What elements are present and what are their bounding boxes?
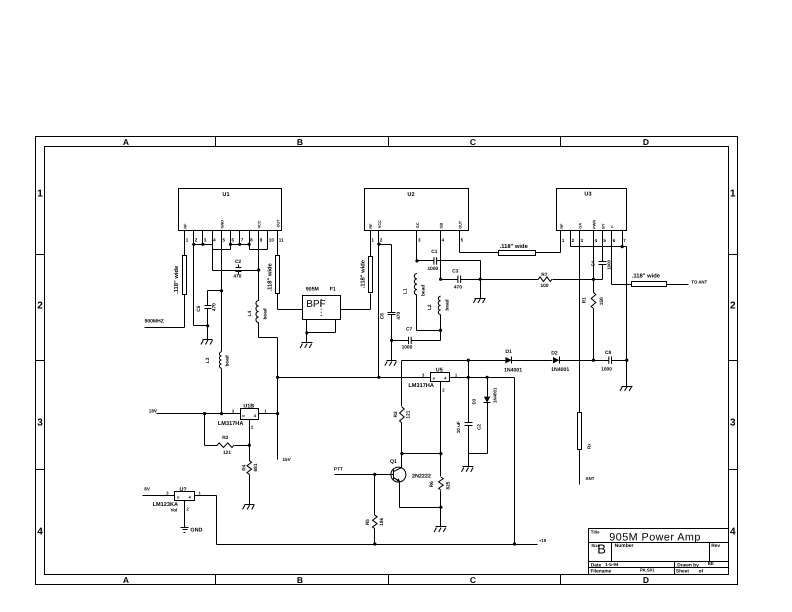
svg-text:3: 3: [580, 238, 583, 243]
junction dot C1/C3/ground node: [479, 278, 482, 281]
node 15V label: [283, 457, 292, 462]
wire regulator rail to U5: [278, 377, 431, 379]
wire L1 bottom jog: [417, 295, 441, 331]
junction dot R2/collector: [400, 452, 403, 455]
transistor Q1 2N2222: [390, 454, 431, 508]
capacitor C6 470 bypass: [379, 311, 402, 340]
junction dot 15V rail / U5 rail: [276, 376, 279, 379]
svg-text:BE: BE: [708, 561, 714, 566]
svg-text:F1: F1: [330, 286, 336, 292]
svg-text:RF: RF: [560, 223, 564, 229]
svg-text:ANT: ANT: [586, 476, 595, 481]
svg-text:2N2222: 2N2222: [412, 474, 431, 480]
regulator U5 LM317HA: [408, 368, 458, 393]
node 18V label: [149, 408, 158, 413]
svg-text:C2: C2: [235, 259, 241, 265]
svg-text:GA: GA: [578, 223, 582, 229]
svg-text:7: 7: [241, 238, 244, 243]
resistor R1 150: [581, 280, 605, 361]
inductor L1 bead: [403, 274, 427, 297]
ground under BPF: [300, 333, 312, 349]
junction dot BPF ground: [305, 331, 308, 334]
junction dot R3/R4/U1B adj: [248, 444, 251, 447]
wire U1 pin1 to microstrip: [184, 245, 186, 256]
wire stub to ANT: [579, 450, 581, 485]
svg-text:PA.S01: PA.S01: [640, 568, 655, 573]
capacitor C2 10uF: [456, 378, 482, 454]
svg-text:R1: R1: [581, 297, 587, 303]
svg-text:5: 5: [603, 238, 606, 243]
resistor R3 121: [217, 435, 249, 456]
wire U1 pin4 drop to C2: [212, 250, 214, 271]
junction dot U5 out / D1 branch: [467, 376, 470, 379]
wire U1B output to 15V column: [259, 413, 278, 415]
svg-text:2: 2: [572, 238, 575, 243]
regulator U? LM123KA: [153, 487, 202, 513]
filter F1 905M BPF body: [303, 286, 341, 319]
microstrip .118 wide (U1 input): [173, 256, 187, 295]
node PTT label: [334, 467, 343, 472]
IC U2 body: [365, 189, 469, 231]
svg-text:R4: R4: [241, 464, 247, 470]
junction dot R7/R1/C4 node: [592, 278, 595, 281]
junction dot U2 pin2 rail: [377, 376, 380, 379]
svg-text:.118" wide: .118" wide: [360, 259, 367, 288]
node 900MHZ input label: [145, 318, 164, 324]
junction dot U2 pin4 / C3: [439, 231, 442, 281]
junction dot D2 / R1 node: [592, 359, 595, 362]
svg-text:GB: GB: [440, 222, 444, 228]
svg-text:1: 1: [186, 238, 189, 243]
diode D1 1N4001: [504, 349, 553, 373]
junction dot C5 bottom: [206, 324, 209, 327]
capacitor C7 1000: [392, 327, 441, 351]
svg-text:11: 11: [279, 238, 284, 243]
wire U3 pin6 to output microstrip: [612, 247, 632, 285]
svg-text:L1: L1: [403, 288, 409, 294]
IC U1 body: [179, 189, 282, 231]
wire U3 ground bus pins 2-7: [571, 247, 627, 361]
svg-text:470: 470: [211, 303, 217, 311]
svg-text:2: 2: [37, 301, 43, 312]
junction dot pin5/C5: [220, 289, 223, 292]
svg-text:U3: U3: [584, 192, 591, 198]
capacitor C4 1000 bypass: [591, 247, 612, 280]
svg-text:D: D: [643, 137, 649, 147]
svg-text:10: 10: [269, 238, 275, 243]
svg-text:5: 5: [223, 238, 226, 243]
U2 pin numbers 1-5: [371, 238, 463, 243]
svg-text:R2: R2: [393, 411, 399, 417]
svg-text:OUT: OUT: [459, 220, 463, 229]
svg-text:C2: C2: [477, 424, 482, 430]
svg-text:470: 470: [454, 285, 462, 291]
junction dot U2 pin3 / C1: [415, 231, 418, 263]
svg-text:3: 3: [418, 238, 421, 243]
wire C3 node to R7: [481, 279, 539, 281]
U2 pin names: [369, 220, 462, 229]
svg-text:1N4001: 1N4001: [551, 367, 569, 373]
ground under C3 node: [473, 280, 485, 304]
wire U2 pin5 to interstage microstrip: [460, 231, 499, 253]
svg-text:2: 2: [195, 238, 198, 243]
svg-text:3: 3: [730, 418, 736, 429]
wire U3 pin4 column: [593, 247, 595, 280]
svg-text:681: 681: [253, 463, 259, 471]
junction dot C8 / U3 ground bus: [625, 359, 628, 362]
svg-text:1: 1: [371, 238, 374, 243]
svg-text:GND: GND: [220, 220, 224, 229]
junction dot U5 out / D3 branch: [486, 376, 489, 379]
svg-text:C6: C6: [379, 313, 385, 319]
svg-text:470: 470: [233, 273, 241, 279]
svg-text:Filename: Filename: [591, 568, 612, 574]
svg-text:.118" wide: .118" wide: [500, 243, 529, 250]
svg-text:D2: D2: [551, 350, 558, 356]
wire BPF ground stubs: [307, 320, 336, 333]
svg-text:A: A: [123, 575, 129, 585]
svg-text:2: 2: [380, 238, 383, 243]
resistor R5 18k: [365, 475, 385, 545]
capacitor C1 1000: [417, 249, 481, 272]
wire U1 ground bus pins 2-4: [194, 245, 231, 250]
svg-text:1: 1: [37, 189, 43, 200]
svg-text:+15: +15: [539, 538, 547, 543]
svg-text:1: 1: [730, 189, 736, 200]
svg-text:4: 4: [37, 527, 43, 538]
svg-text:.118" wide: .118" wide: [632, 273, 661, 280]
U3 pin numbers 1-7: [562, 238, 626, 243]
resistor R7 100: [538, 272, 593, 289]
svg-text:U2: U2: [407, 192, 414, 198]
node TO ANT label: [691, 280, 707, 285]
title block: [589, 529, 729, 575]
svg-text:4: 4: [213, 238, 216, 243]
wire microstrip to U3 pin1: [536, 231, 561, 253]
ground under Q1/R6: [434, 508, 446, 533]
svg-text:6: 6: [232, 238, 235, 243]
svg-text:bead: bead: [262, 308, 268, 319]
wire L4 to 15V column: [259, 323, 278, 460]
microstrip Rx stub: [578, 413, 592, 450]
svg-text:OUT: OUT: [277, 219, 281, 228]
svg-text:GC: GC: [416, 222, 420, 228]
svg-text:R7: R7: [541, 272, 547, 278]
junction dot C2 right / pin9: [257, 268, 260, 271]
U1 pin stubs: [185, 231, 278, 245]
U2 pin stubs: [371, 231, 460, 245]
wire LM123 output to +15 rail: [195, 496, 538, 545]
svg-text:D: D: [643, 575, 649, 585]
svg-text:C: C: [470, 137, 476, 147]
svg-text:905M: 905M: [306, 286, 319, 292]
junction dot U2 pin2: [377, 243, 380, 246]
junction dots U1 bus pins 6,7,8: [229, 243, 251, 246]
junction dot emitter/R6 ground node: [439, 506, 442, 509]
microstrip .118 wide (antenna output): [632, 273, 667, 287]
svg-text:1-5-94: 1-5-94: [605, 562, 619, 567]
svg-text:R6: R6: [429, 481, 435, 487]
svg-text:825: 825: [446, 481, 452, 489]
svg-text:BPF: BPF: [306, 299, 325, 310]
svg-text:7: 7: [623, 238, 626, 243]
wire PTT base line: [335, 474, 394, 476]
svg-text:905M Power Amp: 905M Power Amp: [609, 532, 701, 544]
svg-text:bead: bead: [420, 285, 426, 296]
earth ground GND under LM123: [181, 528, 203, 534]
svg-text:GND: GND: [190, 528, 202, 534]
wire L3 to U1B input rail: [221, 369, 223, 414]
wire R2 top / D1 line: [402, 360, 506, 362]
ground under C2/D3: [462, 454, 474, 472]
svg-text:U1: U1: [222, 192, 229, 198]
svg-text:9: 9: [260, 238, 263, 243]
wire pin2 elbow to C6: [379, 245, 392, 313]
wire C1 right drop: [480, 261, 482, 280]
svg-text:BY: BY: [601, 223, 605, 229]
svg-text:1000: 1000: [402, 345, 413, 351]
svg-text:C3: C3: [452, 269, 458, 275]
svg-text:1000: 1000: [601, 366, 612, 372]
svg-text:6: 6: [613, 238, 616, 243]
svg-text:R3: R3: [222, 435, 228, 441]
junction dots U1 bus pins 2,3: [192, 243, 204, 246]
wire LM123 ground pin: [184, 501, 186, 528]
U1 pin numbers 1-11: [186, 238, 284, 243]
svg-text:1000: 1000: [607, 259, 612, 269]
U3 pin stubs: [561, 231, 623, 247]
svg-text:VCC: VCC: [378, 220, 382, 228]
svg-text:15V: 15V: [283, 457, 292, 462]
wire 18V input rail: [157, 413, 241, 415]
svg-text:RF: RF: [369, 223, 373, 229]
inductor L3 bead: [205, 352, 231, 368]
wire U3 pin3 receive column: [579, 247, 581, 413]
wire D1 anode branch: [468, 361, 470, 378]
svg-text:PWR: PWR: [592, 220, 596, 229]
svg-text:8V: 8V: [144, 487, 151, 492]
diode D2 1N4001: [551, 350, 608, 373]
svg-text:470: 470: [396, 311, 402, 319]
svg-text:10 uF: 10 uF: [456, 421, 461, 433]
junction dot 18V/L3: [220, 412, 223, 415]
svg-text:Title: Title: [591, 530, 600, 535]
capacitor C3 470: [441, 269, 481, 291]
svg-text:C1: C1: [431, 249, 437, 255]
node 8V label: [144, 487, 151, 492]
svg-text:100: 100: [541, 283, 549, 289]
diode D3 1N4001: [469, 378, 498, 454]
svg-text:1: 1: [562, 238, 565, 243]
junction dot rail/U5 column: [513, 542, 516, 545]
capacitor C2 470 coupling: [213, 259, 259, 279]
svg-text:LM317HA: LM317HA: [218, 421, 244, 427]
svg-text:2: 2: [730, 301, 736, 312]
svg-text:150: 150: [599, 297, 605, 305]
junction dot C6 bottom: [390, 339, 393, 342]
svg-text:U5: U5: [436, 368, 443, 374]
svg-text:B: B: [597, 542, 606, 557]
wire U1 pin9 column: [258, 231, 260, 301]
junction dot U5 adj / R6: [439, 452, 442, 455]
svg-text:B: B: [297, 137, 303, 147]
svg-text:3: 3: [37, 418, 43, 429]
svg-text:Q1: Q1: [390, 459, 397, 465]
svg-text:A: A: [123, 137, 129, 147]
svg-text:C4: C4: [591, 260, 596, 266]
node ANT label: [586, 476, 595, 481]
svg-text:.118" wide: .118" wide: [173, 265, 180, 294]
resistor R2 121: [393, 361, 412, 454]
wire 8V input: [143, 495, 175, 497]
svg-text:4: 4: [442, 238, 445, 243]
inductor L2 bead: [427, 296, 450, 314]
wire microstrip to 900MHZ input: [145, 295, 185, 328]
wire U1 pin5 column: [221, 231, 223, 352]
wire U1B adj pin: [249, 420, 251, 446]
svg-text:Drawn by: Drawn by: [677, 563, 699, 569]
inductor L4 bead: [247, 301, 268, 323]
svg-text:Vol: Vol: [171, 507, 178, 512]
svg-text:C: C: [470, 575, 476, 585]
svg-text:18V: 18V: [149, 408, 158, 413]
svg-text:L3: L3: [205, 357, 211, 363]
wire microstrip to antenna: [667, 284, 689, 286]
wire U1 pin2 ground drop: [194, 245, 208, 326]
svg-text:121: 121: [223, 450, 231, 456]
ground under C5: [201, 326, 213, 345]
IC U3 body: [557, 189, 627, 231]
svg-text:C5: C5: [196, 305, 202, 311]
resistor R4 681: [241, 446, 258, 505]
svg-text:Rev: Rev: [711, 543, 720, 549]
svg-text:121: 121: [406, 410, 412, 418]
ground under U3 bus column: [620, 361, 633, 392]
svg-text:U?: U?: [180, 487, 187, 493]
wire C5 top to pin5 column: [208, 290, 222, 292]
svg-text:L4: L4: [247, 311, 253, 317]
svg-text:1N4001: 1N4001: [504, 367, 522, 373]
microstrip .118 wide (U2 input): [360, 245, 373, 293]
svg-text:18k: 18k: [379, 517, 385, 525]
junction dot 18V/R3: [203, 412, 206, 415]
microstrip .118 wide (U1 output): [267, 256, 280, 294]
svg-text:3: 3: [204, 238, 207, 243]
svg-text:Rx: Rx: [587, 443, 592, 449]
wire U1 ground bus pins 6-8: [231, 245, 268, 250]
junction dot PTT/R5: [373, 473, 376, 476]
wire BPF output to U2 microstrip: [341, 294, 371, 310]
wire emitter to ground node: [400, 507, 441, 509]
svg-text:U1B: U1B: [243, 403, 254, 409]
svg-text:LM317HA: LM317HA: [408, 383, 434, 389]
svg-text:4: 4: [595, 238, 598, 243]
svg-text:Date: Date: [591, 562, 602, 568]
svg-text:bead: bead: [225, 355, 231, 366]
svg-text:1N4001: 1N4001: [493, 387, 498, 403]
svg-text:4: 4: [730, 527, 736, 538]
svg-text:D3: D3: [472, 398, 477, 404]
wire R3 branch down: [205, 414, 218, 446]
junction dot 15V rail / U1B output: [276, 412, 279, 415]
svg-text:8: 8: [250, 238, 253, 243]
svg-text:L2: L2: [427, 304, 433, 310]
capacitor C8 1000: [601, 350, 626, 373]
resistor R6 825: [429, 454, 452, 508]
svg-text:D1: D1: [505, 349, 512, 355]
wire U2 pin2 column to regulator rail: [378, 245, 380, 378]
svg-text:VCC: VCC: [258, 220, 262, 228]
ground under R4: [243, 505, 255, 510]
junction dot rail/R5: [373, 542, 376, 545]
junction dot U3 pin7 bus: [621, 245, 624, 248]
wire U5 output node: [450, 378, 515, 545]
regulator U1B LM317HA: [218, 403, 267, 429]
svg-text:RF: RF: [184, 223, 188, 229]
junction dot D1 line: [467, 359, 470, 362]
svg-text:900MHZ: 900MHZ: [145, 318, 164, 324]
wire U5 adj column: [440, 382, 442, 454]
capacitor C5 470: [196, 291, 218, 326]
ground under C6: [385, 341, 397, 366]
U1 pin names: [184, 219, 281, 229]
svg-text:C7: C7: [406, 327, 412, 333]
svg-text:1000: 1000: [428, 266, 439, 272]
svg-text:bead: bead: [444, 299, 450, 310]
svg-text:PTT: PTT: [334, 467, 343, 472]
svg-text:.118" wide: .118" wide: [267, 263, 274, 292]
node +15 label: [539, 538, 547, 543]
svg-text:C8: C8: [605, 350, 611, 356]
svg-text:Sheet: Sheet: [676, 569, 689, 575]
svg-text:R5: R5: [365, 519, 371, 525]
wire L2 bottom: [439, 315, 442, 341]
svg-text:of: of: [699, 568, 704, 574]
wire U1 pin11 to output microstrip: [277, 231, 279, 256]
svg-text:B: B: [297, 575, 303, 585]
wire microstrip to BPF input: [278, 294, 303, 310]
svg-text:5: 5: [461, 238, 464, 243]
svg-text:Number: Number: [615, 543, 634, 549]
microstrip .118 wide (interstage): [499, 243, 536, 256]
U3 pin names: [560, 220, 615, 229]
svg-text:TO ANT: TO ANT: [691, 280, 707, 285]
wire collector node: [402, 453, 441, 455]
